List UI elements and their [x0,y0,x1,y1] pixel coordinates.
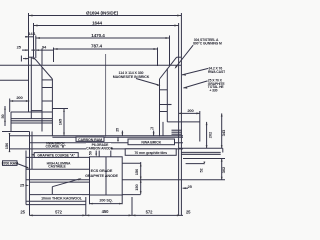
left flange bottom y131.5 [2,131,30,133]
extension line right x182 [180,13,182,57]
svg-text:COURSE "B": COURSE "B" [45,145,66,149]
svg-text:52: 52 [200,168,204,172]
leader 304 st/steel [175,45,194,69]
bottom dim line [20,197,191,216]
dim 165 vertical center-left [58,109,65,136]
svg-text:CASTABLE: CASTABLE [48,165,66,169]
dim line 3 1470.4 [36,37,170,39]
svg-text:RWA CAST: RWA CAST [208,70,225,74]
svg-text:450: 450 [102,209,109,214]
svg-text:Ø1694 (INSIDE): Ø1694 (INSIDE) [86,10,119,15]
layer line y169.3 [26,168,90,170]
right wall cap [177,56,182,58]
right line y158.5 [183,158,225,160]
extension line left x28.5 [28,13,30,65]
outer platform line left [0,79,29,81]
svg-text:202: 202 [208,131,213,138]
extension line right x178.5 [178,23,180,57]
high alumina castable text [47,161,71,168]
leader 25x70 [183,81,207,88]
dim 343 far right rotated [221,113,226,148]
extension line right x157.5 [157,48,159,67]
left wall inner face [51,79,53,136]
centerline [105,54,107,137]
svg-text:+ 330: + 330 [209,88,217,92]
right triple band [172,129,182,131]
70mm graphite tiles box [125,149,176,156]
left step vertical x11 [10,112,12,132]
left bottom shell x26 [25,151,27,205]
dim 25 kaowool left [20,183,29,188]
svg-text:MAGNESITE IN BRICK: MAGNESITE IN BRICK [113,75,150,79]
svg-text:343: 343 [221,129,225,136]
svg-text:572: 572 [146,210,153,215]
dim 50 left rotated [1,106,6,126]
left wall slope [34,57,53,79]
right side line y148.3 [179,147,223,149]
anode block [90,157,123,195]
svg-text:1644: 1644 [92,21,102,26]
extension line left x35.8 [35,36,37,59]
left wall liner line [41,67,43,132]
graphite course a box [31,153,78,158]
small down-arrow dim at hearth x118.9 [116,128,124,142]
svg-text:50: 50 [89,151,93,155]
nwa brick course b text [45,141,66,148]
small dim 25 top-left [17,44,35,51]
leader magnesite [136,79,161,86]
svg-text:25: 25 [20,209,25,214]
small vertical arrow marker left wall top [23,58,29,60]
left wall outer shell line [30,57,32,118]
svg-text:GRAPHITE ANODE: GRAPHITE ANODE [85,174,118,178]
furnace top rim line [0,64,181,66]
extension line left x53.5 [53,48,55,63]
left wall brick joint 0 [42,79,52,81]
small down-arrow dim at hearth x153 [150,127,155,136]
right-of-anode short line y163.3 [122,162,141,164]
svg-text:150: 150 [134,183,139,190]
left step horizontal y112 [11,111,52,113]
left wall cap [29,56,35,58]
25x70 text [208,79,226,93]
dim 200 SQ under anode [90,195,123,205]
dim 25 right shell gap [183,184,193,189]
kaowool text [41,195,83,200]
svg-text:200: 200 [187,108,194,113]
svg-text:787.4: 787.4 [91,44,103,49]
extension line right x169.5 [169,36,171,67]
p6-grade carbon anode text [86,143,114,151]
svg-text:14.1: 14.1 [28,31,36,36]
svg-text:GRAPHITE COURSE "A": GRAPHITE COURSE "A" [37,153,75,157]
dim 150 right-lower rotated [186,161,206,172]
dim 200 left [10,95,30,112]
carbon ram box [76,137,104,142]
svg-text:165: 165 [58,118,63,125]
svg-text:50: 50 [1,114,5,118]
plate line y201.3 [26,200,86,202]
small dim 14.1 [25,31,37,38]
layer line y142.8 [30,142,184,144]
left wall brick joint 1 [42,87,52,89]
hearth top line [10,135,184,137]
left shell vertical continues [28,65,30,112]
svg-text:150: 150 [134,168,139,175]
svg-text:8700 RAM: 8700 RAM [2,162,18,166]
left wall brick joint 3 [31,110,42,112]
dim line 2 1644 [34,25,179,27]
dim 202 right rotated [206,122,213,148]
svg-text:CARBON RAM: CARBON RAM [78,138,102,142]
svg-text:25: 25 [186,210,191,215]
svg-text:302: 302 [221,166,225,173]
svg-text:1470.4: 1470.4 [91,33,105,38]
svg-text:572: 572 [55,209,62,214]
thick band lines under wall [11,118,52,120]
8700 ram box [2,161,18,166]
svg-text:71: 71 [150,127,154,131]
right wall brick joints [160,89,168,91]
svg-text:NWA BRICK: NWA BRICK [141,140,161,144]
right wall footing line [162,122,164,136]
right wall shelf bottom y121.9 [167,121,200,123]
dim 150 left rotated [4,133,10,152]
svg-text:70 mm graphite tiles: 70 mm graphite tiles [134,151,167,155]
34.2 text [208,66,226,73]
304 st/steel text [193,38,222,45]
extension line left x33.5 [33,23,35,57]
extension line left x42 [41,49,43,66]
leader 8700 ram [17,164,30,169]
right wall shell outer double [178,57,180,215]
layer line y194.6 [29,194,140,196]
nwa brick box [128,139,175,145]
svg-text:25: 25 [116,128,120,132]
layer line y158.3 [26,156,90,158]
right wall liner line 1 [166,69,168,122]
svg-text:10mm THICK KAOWOOL: 10mm THICK KAOWOOL [41,196,83,200]
dim 200 right [179,108,200,142]
svg-text:150: 150 [4,142,9,149]
left wall brick joint 2 [42,100,52,102]
small dim 94 top-left [36,45,54,51]
dim far right lower rotated [221,159,226,181]
dim line 1 Ø1694 INSIDE [29,15,182,17]
plate line y204.6 [26,204,86,206]
dim pair right of anode [134,162,142,194]
leader 34.2 [182,68,208,75]
kaowool double line [26,179,225,181]
leader kaowool [52,178,81,194]
magnesite text [113,71,150,79]
anode top dim extensions [98,151,100,157]
right tiles thick band [181,151,220,153]
dim line 4 787.4 [54,48,158,50]
right wall slope [160,57,177,79]
svg-text:800°C GUNNING M: 800°C GUNNING M [193,42,222,46]
svg-text:200 SQ.: 200 SQ. [99,199,112,203]
right wall inner face [159,79,161,136]
svg-text:200: 200 [16,95,23,100]
left bottom liner x32 [31,132,33,170]
left bottom shell x29.5 [29,132,31,216]
metal line short [52,108,68,110]
svg-text:CARBON ANODE: CARBON ANODE [86,146,114,150]
layer line y149.5 [10,148,184,150]
svg-text:ECS GRADE: ECS GRADE [91,169,113,173]
